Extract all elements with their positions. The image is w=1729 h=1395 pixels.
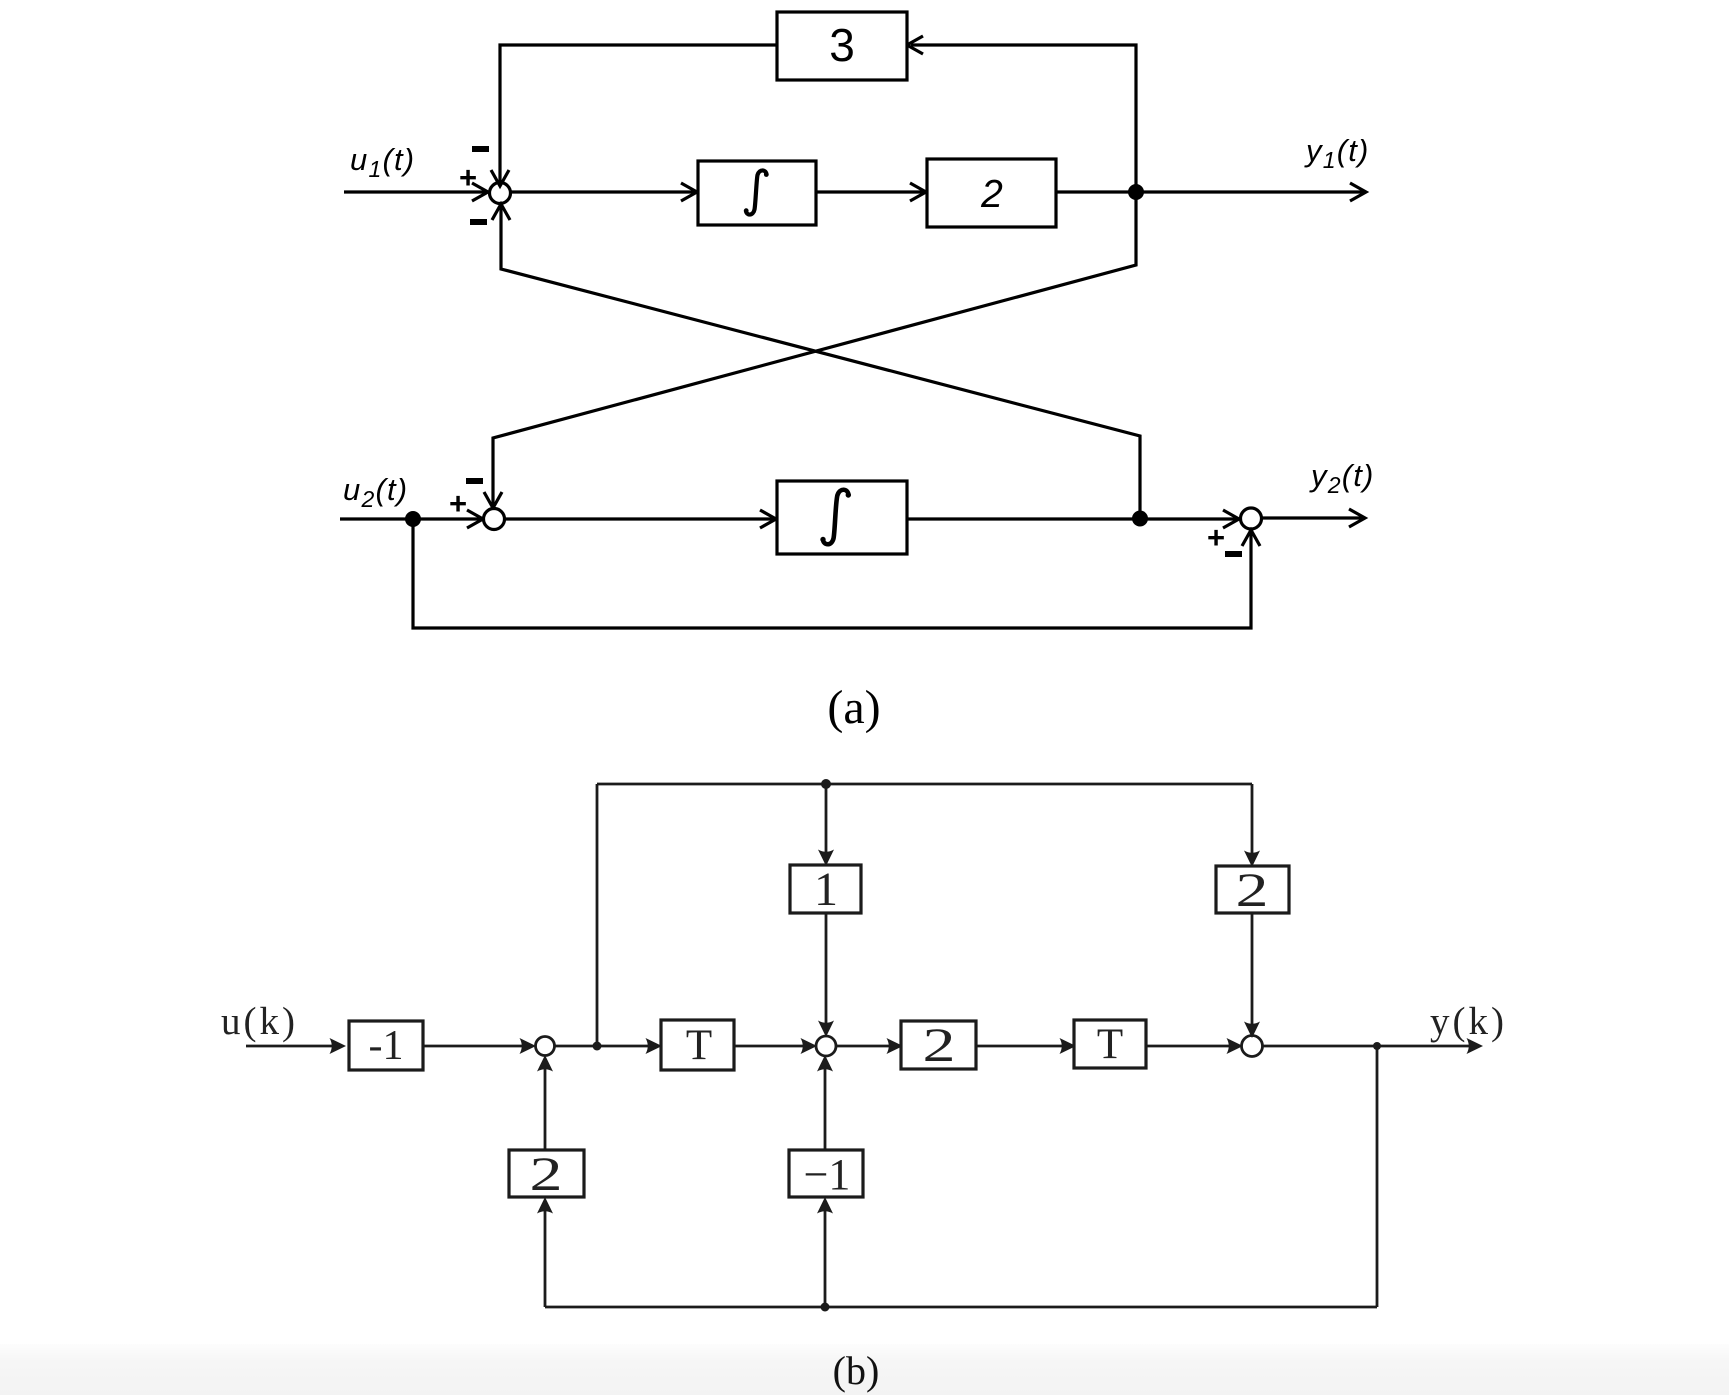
node N2u on u2 input bbox=[405, 511, 421, 527]
svg-text:2: 2 bbox=[980, 173, 1003, 216]
wire: input u2 line to summing junction S2 bbox=[340, 510, 483, 528]
svg-text:−1: −1 bbox=[804, 1150, 851, 1199]
gain box 3 (feedback) bbox=[777, 12, 907, 80]
svg-text:2: 2 bbox=[923, 1019, 956, 1072]
wire: takeoff NB1 up to top rail bbox=[596, 784, 599, 1046]
svg-text:3: 3 bbox=[829, 19, 855, 71]
svg-text:1: 1 bbox=[814, 863, 838, 916]
wire: T2 to summing junction B3 bbox=[1146, 1038, 1243, 1054]
wire: box 2m to box T2 bbox=[976, 1038, 1076, 1054]
wire: gain box to output y1 bbox=[1056, 183, 1366, 201]
wire: cross feedback from node N1 down into S2 top bbox=[484, 192, 1136, 508]
integral symbol in A2 bbox=[820, 490, 851, 545]
wire: A1 to gain box 2 bbox=[816, 183, 926, 201]
node NBy takeoff on output line bbox=[1373, 1042, 1381, 1050]
summing junction S2 bbox=[484, 509, 505, 530]
box 1t (gain 1 top) bbox=[790, 865, 861, 913]
sign minus below-right S3 bbox=[1225, 551, 1242, 557]
wire: T1 to summing junction B2 bbox=[734, 1038, 817, 1054]
wire: bottom rail bbox=[545, 1306, 1377, 1309]
wire: input u1 into summing junction S1 bbox=[344, 183, 488, 201]
sign minus below S1 bbox=[470, 219, 487, 225]
wire: output takeoff down to bottom rail bbox=[1376, 1046, 1379, 1307]
summing junction S3 bbox=[1241, 508, 1262, 529]
svg-text:+: + bbox=[1207, 520, 1225, 555]
integral symbol in A1 bbox=[744, 170, 769, 214]
wire: top rail down into box 1t bbox=[818, 784, 834, 866]
box T2 (delay) bbox=[1074, 1020, 1146, 1068]
node N2y on y2 line bbox=[1132, 511, 1148, 527]
wire: feedback from N1 up and left through gain 3 bbox=[907, 36, 1136, 192]
wire: gain 3 output down into S1 top bbox=[491, 45, 777, 186]
wire: input u(k) arrow into box -1 bbox=[246, 1038, 346, 1054]
box 2t (gain 2 top right) bbox=[1216, 866, 1289, 913]
node on top rail above box 1 bbox=[821, 779, 831, 789]
wire: B2 to box 2m bbox=[836, 1038, 903, 1054]
sign minus above S2 bbox=[466, 478, 483, 484]
integrator box A1 bbox=[698, 161, 816, 225]
box 2m (gain middle) bbox=[901, 1021, 976, 1069]
summing junction B2 bbox=[816, 1036, 836, 1056]
svg-text:+: + bbox=[459, 160, 477, 195]
integrator box A2 bbox=[777, 481, 907, 554]
box -1 (input gain) bbox=[349, 1021, 423, 1070]
node N1 on y1 line bbox=[1128, 184, 1144, 200]
svg-text:(a): (a) bbox=[827, 681, 880, 734]
wire: top rail bbox=[597, 783, 1252, 786]
svg-text:T: T bbox=[1097, 1021, 1123, 1068]
box 2b (gain 2 bottom left) bbox=[509, 1150, 584, 1197]
svg-text:-1: -1 bbox=[369, 1023, 404, 1069]
wire: S3 to output y2 bbox=[1262, 509, 1366, 527]
svg-text:u2(t): u2(t) bbox=[343, 472, 408, 512]
svg-text:y2(t): y2(t) bbox=[1309, 458, 1375, 498]
node NB1 takeoff after B1 bbox=[593, 1042, 602, 1051]
svg-text:+: + bbox=[449, 486, 467, 521]
svg-text:(b): (b) bbox=[833, 1348, 880, 1393]
wire: top rail right end down into box 2t bbox=[1244, 784, 1260, 867]
gain box 2 (upper) bbox=[927, 159, 1056, 227]
svg-text:y1(t): y1(t) bbox=[1304, 133, 1370, 173]
wire: B1 to box T1 bbox=[555, 1038, 663, 1054]
wire: box 2t down into B3 top bbox=[1244, 913, 1260, 1038]
svg-text:T: T bbox=[686, 1022, 712, 1069]
wire: box 1t down into B2 top bbox=[818, 913, 834, 1037]
svg-text:2: 2 bbox=[530, 1148, 563, 1201]
wire: bottom rail left end up into box 2b bbox=[537, 1197, 553, 1307]
wire: outer feedback from N2u down along bottom into S3 bbox=[413, 519, 1260, 628]
summing junction S1 bbox=[490, 183, 511, 204]
summing junction B3 bbox=[1242, 1036, 1263, 1057]
sign minus above S1 bbox=[472, 146, 489, 152]
svg-text:y(k): y(k) bbox=[1430, 1000, 1507, 1043]
wire: box -1b up into B2 bottom bbox=[817, 1055, 833, 1150]
svg-text:2: 2 bbox=[1236, 864, 1269, 917]
box -1b (gain -1 bottom) bbox=[789, 1150, 863, 1197]
wire: S1 to integrator box A1 bbox=[511, 183, 698, 201]
svg-text:u(k): u(k) bbox=[221, 1000, 298, 1043]
wire: A2 to summing junction S3 bbox=[907, 510, 1239, 528]
wire: B3 to output y(k) bbox=[1263, 1038, 1484, 1054]
box T1 (delay) bbox=[661, 1020, 734, 1070]
wire: bottom rail node up into box -1b bbox=[817, 1197, 833, 1307]
node on bottom rail below box -1b bbox=[821, 1303, 830, 1312]
wire: cross feedback from node N2y (y2 line) up into S1 bottom bbox=[492, 204, 1140, 518]
wire: box 2b up into B1 bottom bbox=[537, 1055, 553, 1150]
wire: box -1 to summing junction B1 bbox=[423, 1038, 536, 1054]
svg-text:u1(t): u1(t) bbox=[350, 142, 415, 182]
summing junction B1 bbox=[536, 1037, 555, 1056]
wire: S2 to integrator box A2 bbox=[505, 510, 777, 528]
